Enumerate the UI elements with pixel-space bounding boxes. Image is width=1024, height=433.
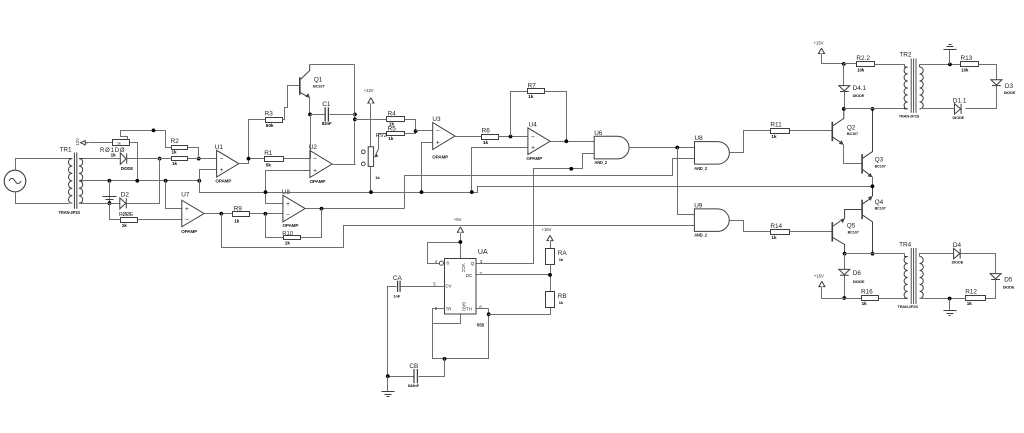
wire U3 plus input [422, 143, 433, 193]
svg-text:TRAN-2P2S: TRAN-2P2S [898, 304, 919, 309]
svg-text:1k: 1k [285, 241, 291, 246]
junction dot [487, 312, 491, 316]
svg-text:R12: R12 [965, 289, 977, 296]
wire CB to ground [387, 377, 389, 392]
wire CV to CA [388, 287, 445, 377]
svg-text:+: + [185, 206, 189, 213]
AC source V1 [4, 170, 26, 192]
svg-text:DIODE: DIODE [853, 279, 865, 284]
wire R10 to U7 inverting [138, 219, 182, 221]
svg-text:TRAN-2P3S: TRAN-2P3S [59, 210, 81, 215]
transformer TR4 primary [904, 257, 908, 299]
svg-text:UA: UA [478, 249, 488, 256]
resistor R2 upper [172, 146, 188, 150]
wire +15V to RA [550, 241, 552, 249]
svg-text:1k: 1k [172, 150, 178, 155]
wire R3 to Q1 base [283, 86, 300, 120]
svg-text:−: − [436, 128, 440, 135]
power +15V b [547, 235, 553, 240]
wire U7 out to bus 225.7 [222, 214, 695, 248]
transformer TR1 core [74, 153, 76, 209]
wire RV2 bottom to rail [370, 167, 372, 193]
junction dot [420, 190, 424, 194]
junction dot [264, 190, 268, 194]
svg-text:1k: 1k [528, 94, 534, 99]
op-amp U2 [310, 151, 332, 178]
svg-text:Q: Q [471, 261, 475, 266]
wire Q3 emitter to rail [872, 177, 874, 187]
wire +5V to VCC [428, 233, 461, 264]
wire R12 to TR4 [920, 298, 966, 300]
wire U9 output [729, 221, 771, 232]
resistor R10 feedback [284, 236, 301, 240]
svg-text:TR: TR [446, 307, 452, 312]
svg-text:R11: R11 [770, 121, 782, 128]
wire R5 left to wiper [379, 134, 387, 149]
junction dot [569, 167, 573, 171]
transistor Q2 [831, 122, 833, 142]
junction dot [842, 296, 846, 300]
capacitor CB [414, 369, 417, 383]
wire U7 plus input [166, 181, 182, 209]
wire D1.1 to TR2 [920, 108, 955, 110]
svg-text:U6: U6 [594, 130, 603, 137]
wire R4 right [405, 120, 416, 132]
junction dot [871, 184, 875, 188]
wire main to U1 [127, 158, 217, 160]
svg-text:CV: CV [445, 283, 451, 288]
wire 555 GND pin [433, 315, 461, 324]
svg-text:C1: C1 [322, 101, 331, 108]
transistor Q4 [861, 200, 863, 220]
svg-text:R6: R6 [482, 127, 491, 134]
junction dot [158, 157, 162, 161]
svg-text:833nF: 833nF [408, 383, 420, 388]
wire Q1 emitter down [309, 98, 311, 115]
wire 555 DC [477, 274, 551, 276]
wire R10 left link [110, 204, 121, 220]
resistor RA [546, 249, 555, 265]
op-amp U1 [217, 150, 239, 177]
transformer TR2 primary [904, 67, 908, 109]
svg-text:50k: 50k [266, 123, 274, 128]
wire +12V to RV2 [370, 104, 372, 147]
svg-text:CB: CB [409, 363, 418, 370]
wire node to R16 [845, 298, 862, 300]
diode D4.1 [839, 86, 850, 92]
junction dot [414, 129, 418, 133]
svg-text:+5V: +5V [454, 217, 462, 222]
potentiometer RV2 [368, 147, 373, 167]
resistor R5 [387, 132, 405, 136]
svg-text:BC107: BC107 [847, 132, 858, 136]
wire U6 to U9 input [678, 148, 695, 215]
svg-text:R3: R3 [265, 110, 274, 117]
svg-text:TR1: TR1 [60, 147, 73, 154]
svg-text:OPAMP: OPAMP [181, 229, 197, 234]
svg-text:Q3: Q3 [875, 157, 884, 164]
wire +15V to R16 node [822, 287, 845, 299]
junction dot [152, 129, 156, 133]
wire terminal to R8 [89, 142, 113, 144]
junction dot [842, 107, 846, 111]
wire 555 TR loop [433, 309, 489, 359]
555 timer UA box [445, 259, 477, 315]
svg-text:DIODE: DIODE [953, 115, 965, 120]
wire R14 to Q5 [790, 231, 832, 233]
wire D4.1 bottom [844, 92, 846, 109]
wire C1 line [311, 114, 355, 116]
junction dot [108, 179, 112, 183]
svg-text:U7: U7 [181, 191, 190, 198]
svg-text:+: + [313, 167, 317, 174]
svg-text:R14: R14 [770, 223, 782, 230]
transformer TR2 secondary [920, 67, 924, 109]
svg-text:Q5: Q5 [847, 223, 856, 230]
svg-text:AND_2: AND_2 [694, 232, 708, 237]
junction dot [948, 63, 952, 67]
svg-text:1k: 1k [388, 136, 394, 141]
junction dot [219, 212, 223, 216]
svg-text:−: − [313, 156, 317, 163]
svg-text:1k: 1k [375, 175, 380, 180]
junction dot [197, 157, 201, 161]
op-amp U7 [182, 200, 204, 227]
op-amp U8 [283, 195, 305, 222]
svg-text:U3: U3 [432, 116, 441, 123]
wire D3 down [966, 86, 997, 109]
svg-text:U2: U2 [309, 144, 318, 151]
wire node to R2.2 [844, 63, 857, 65]
AND gate U8b [695, 142, 730, 165]
junction dot [353, 113, 357, 117]
svg-text:1k: 1k [559, 257, 564, 262]
wire TR4 sec top [920, 254, 954, 257]
svg-text:+15V: +15V [542, 227, 552, 232]
wire R6 to U4 [499, 136, 528, 138]
svg-text:BC107: BC107 [848, 230, 859, 234]
resistor R11 [771, 129, 790, 134]
svg-text:1k: 1k [483, 140, 489, 145]
input terminal arrow [81, 141, 89, 145]
AND gate U9 [694, 209, 729, 232]
transformer TR2 core [911, 59, 916, 113]
diode D2 [120, 198, 127, 209]
svg-text:Q4: Q4 [875, 199, 884, 206]
svg-text:+12V: +12V [364, 88, 374, 93]
wire R2.2 to TR2 [875, 65, 905, 68]
resistor R13 [961, 62, 979, 67]
ground G1 [103, 197, 117, 202]
op-amp U4 [528, 128, 550, 155]
wire U2 output [333, 65, 356, 165]
transformer TR1 primary winding [69, 158, 72, 160]
svg-text:D4.1: D4.1 [853, 85, 867, 92]
junction dot [386, 374, 390, 378]
wire D1 cathode [127, 158, 172, 160]
wire U8b output [730, 131, 771, 153]
wire to R4 [355, 119, 387, 121]
wire U8 plus input [266, 193, 283, 204]
svg-text:82nF: 82nF [322, 121, 332, 126]
wire to U3 inverting [416, 130, 433, 132]
svg-text:1k: 1k [172, 161, 178, 166]
wire source to TR1 [16, 159, 70, 204]
svg-text:R2: R2 [171, 138, 180, 145]
resistor R9 [233, 212, 250, 217]
diode D5 [990, 274, 1001, 280]
svg-text:−: − [185, 217, 189, 224]
wire CB line [388, 359, 445, 377]
wire D4.1 top [843, 64, 845, 86]
transistor Q3 [861, 154, 863, 174]
svg-text:1k: 1k [771, 134, 777, 139]
svg-text:AND_2: AND_2 [594, 160, 608, 165]
junction dot [443, 357, 447, 361]
wire U8 output [306, 208, 405, 210]
svg-text:+: + [220, 167, 224, 174]
wire R1 tap [249, 158, 265, 160]
svg-text:DIODE: DIODE [1003, 285, 1015, 290]
transformer TR4 secondary [920, 257, 924, 299]
svg-text:D4: D4 [953, 242, 962, 249]
svg-text:1k: 1k [122, 223, 128, 228]
svg-text:AND_2: AND_2 [694, 166, 708, 171]
svg-text:DIODE: DIODE [952, 260, 964, 265]
diode D4 [954, 248, 961, 259]
wire U8 out up to 175.6 [405, 159, 695, 209]
wire R8 right to bus [130, 143, 138, 181]
resistor RB [546, 292, 555, 308]
svg-text:1k: 1k [967, 301, 973, 306]
junction dot [164, 179, 168, 183]
diode D1 [120, 153, 126, 164]
svg-text:BC107: BC107 [875, 164, 886, 168]
wire U8 feedback loop [266, 209, 322, 238]
power +15V c [819, 281, 825, 286]
wire Q1 collector rail [310, 64, 355, 66]
junction dot [509, 135, 513, 139]
wire U3 output to R6 [455, 136, 482, 138]
svg-text:OPAMP: OPAMP [310, 179, 326, 184]
wire ground stem [109, 181, 111, 204]
junction dot [842, 62, 846, 66]
svg-text:DIODE: DIODE [1004, 90, 1016, 95]
junction dot [871, 252, 875, 256]
svg-text:+: + [436, 139, 440, 146]
capacitor C1 [325, 107, 328, 121]
transistor Q5 [831, 222, 833, 242]
wire U4 output [551, 141, 595, 143]
svg-text:1k: 1k [771, 235, 777, 240]
resistor R3 [266, 118, 283, 123]
junction dot [135, 179, 139, 183]
svg-text:RV2: RV2 [376, 133, 387, 139]
junction dot [369, 190, 373, 194]
junction dot [564, 139, 568, 143]
wire R11 to Q2 [790, 130, 832, 132]
svg-text:+: + [286, 201, 290, 208]
svg-text:Q2: Q2 [847, 124, 856, 131]
svg-text:1k: 1k [862, 301, 868, 306]
svg-text:−: − [531, 134, 535, 141]
svg-text:U1: U1 [215, 144, 224, 151]
svg-text:TR4: TR4 [899, 242, 912, 249]
junction dot [308, 113, 312, 117]
diode D3 [991, 80, 1002, 86]
junction dot [197, 179, 201, 183]
svg-text:1nF: 1nF [393, 294, 401, 299]
svg-text:5k: 5k [266, 163, 272, 168]
wire R16 to TR4 [879, 298, 905, 300]
svg-text:DIODE: DIODE [853, 93, 865, 98]
resistor R14 [771, 230, 790, 235]
svg-text:10k: 10k [961, 67, 969, 72]
power +12V [368, 98, 374, 103]
wire ground stem bottom right [949, 299, 951, 311]
wire R2 upper left link [166, 131, 172, 148]
wire R13 to D3 [979, 65, 997, 80]
svg-text:OPAMP: OPAMP [283, 223, 299, 228]
svg-text:OPAMP: OPAMP [432, 155, 448, 160]
wire R9 to U8 [250, 213, 283, 215]
svg-text:D5: D5 [1004, 276, 1013, 283]
junction dot [548, 273, 552, 277]
svg-text:U8: U8 [695, 135, 704, 142]
svg-text:1k: 1k [234, 218, 240, 223]
wire rail mid [200, 181, 873, 193]
resistor R7 [528, 89, 545, 94]
wire R5 right [405, 132, 416, 134]
wire R1 to U2 inverting [284, 158, 310, 160]
resistor R2.2 [857, 62, 875, 67]
wire 555 Q output [477, 154, 595, 264]
resistor R1 [265, 157, 284, 162]
svg-text:TH: TH [466, 307, 472, 312]
wire +15V to node [822, 54, 844, 64]
svg-text:OPAMP: OPAMP [526, 156, 542, 161]
wire y158.6 TR1 to D1 [84, 158, 121, 160]
svg-text:DIODE: DIODE [121, 166, 134, 171]
wire U4 plus input [472, 148, 528, 193]
svg-text:1k: 1k [117, 141, 121, 145]
wire collector rail bottom [845, 254, 905, 257]
wire D6 bottom [844, 276, 846, 299]
svg-text:CA: CA [393, 275, 403, 282]
svg-text:U4: U4 [529, 122, 538, 129]
ground G4 [944, 311, 957, 316]
wire U7 output [205, 213, 233, 215]
resistor R4 [387, 117, 405, 122]
svg-text:VCC: VCC [461, 264, 466, 273]
svg-text:OPAMP: OPAMP [215, 179, 231, 184]
wire bus A center tap [84, 180, 200, 182]
svg-text:10k: 10k [857, 67, 865, 72]
svg-text:BC107: BC107 [313, 84, 324, 89]
diode D6 [839, 269, 850, 275]
wire R8 top link [121, 131, 166, 140]
svg-text:TR2: TR2 [899, 52, 912, 59]
wire D5 down to R12 [986, 280, 996, 299]
wire R7 right link [545, 92, 567, 142]
svg-text:BC107: BC107 [875, 207, 886, 211]
transformer TR1 secondary winding [79, 159, 84, 204]
svg-text:+15V: +15V [814, 40, 824, 45]
capacitor CA [398, 281, 401, 292]
wire TH to RB [489, 308, 551, 315]
wire R7 left link [511, 92, 528, 137]
wire U6 output [629, 147, 695, 149]
wire TR1 bottom to D2 [84, 203, 120, 205]
svg-text:D3: D3 [1005, 83, 1014, 90]
resistor R8 [113, 140, 130, 146]
junction dot [459, 240, 463, 244]
diode D1.1 [955, 104, 962, 115]
wire collector rail top [844, 107, 905, 109]
junction dot [264, 212, 268, 216]
wire R2 upper right link [188, 148, 199, 159]
AND gate U6 [594, 136, 629, 159]
svg-text:TRAN-2P2S: TRAN-2P2S [899, 114, 920, 119]
svg-text:D6: D6 [853, 270, 862, 277]
junction dot [108, 201, 112, 205]
svg-text:1k: 1k [559, 300, 564, 305]
transistor Q1 [299, 77, 301, 95]
junction dot [353, 117, 357, 121]
resistor R10 [121, 218, 138, 223]
svg-text:D2: D2 [121, 192, 130, 199]
resistor R6 [482, 135, 499, 140]
wire U2 plus input [266, 171, 310, 193]
wire TR2 sec top [920, 64, 961, 66]
svg-text:555: 555 [477, 322, 485, 327]
wire C1 node down to U2 [310, 115, 312, 159]
resistor R12 [966, 296, 986, 301]
ground G2 [382, 392, 395, 397]
junction dot [948, 297, 952, 301]
junction dot [675, 146, 679, 150]
svg-text:+: + [531, 145, 535, 152]
svg-text:DC: DC [466, 273, 472, 278]
wire U1 output [239, 120, 266, 164]
wire ground stem top right [949, 50, 951, 65]
transformer TR4 core [911, 248, 916, 304]
junction dot [247, 157, 251, 161]
svg-text:−: − [220, 156, 224, 163]
ground G3 [944, 45, 957, 50]
svg-text:−: − [286, 212, 290, 219]
op-amp U3 [433, 123, 455, 150]
svg-text:1k: 1k [111, 152, 117, 157]
svg-text:D1.1: D1.1 [953, 98, 967, 105]
power +15V a [819, 48, 825, 53]
wire D6 top [844, 254, 846, 270]
junction dot [470, 190, 474, 194]
wire D4 to D5 [961, 254, 996, 274]
wire RA to RB [550, 265, 552, 292]
svg-text:12V: 12V [75, 138, 80, 146]
resistor R2 lower [172, 157, 188, 161]
junction dot [843, 252, 847, 256]
power +5V [457, 227, 463, 232]
wire Q2 emitter to Q3 base [844, 145, 862, 164]
wire U1 plus input [200, 170, 217, 181]
svg-text:+15V: +15V [814, 274, 824, 279]
wire D1 node down to D2 line [127, 159, 160, 204]
junction dot [871, 107, 875, 111]
junction dot [320, 207, 324, 211]
svg-text:R16: R16 [861, 289, 873, 296]
